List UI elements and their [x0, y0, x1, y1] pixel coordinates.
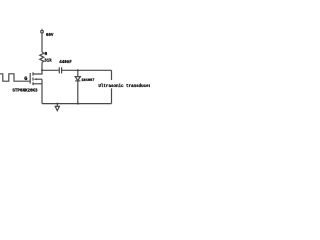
svg-text:440nF: 440nF	[59, 61, 72, 65]
svg-text:31k: 31k	[44, 58, 52, 63]
svg-text:60V: 60V	[46, 34, 54, 38]
svg-text:Ultrasonic transducer: Ultrasonic transducer	[98, 84, 150, 89]
svg-text:G: G	[24, 76, 27, 82]
svg-text:R: R	[45, 53, 48, 57]
svg-text:1N4007: 1N4007	[81, 79, 94, 83]
svg-text:STP6NK20K3: STP6NK20K3	[12, 89, 38, 93]
